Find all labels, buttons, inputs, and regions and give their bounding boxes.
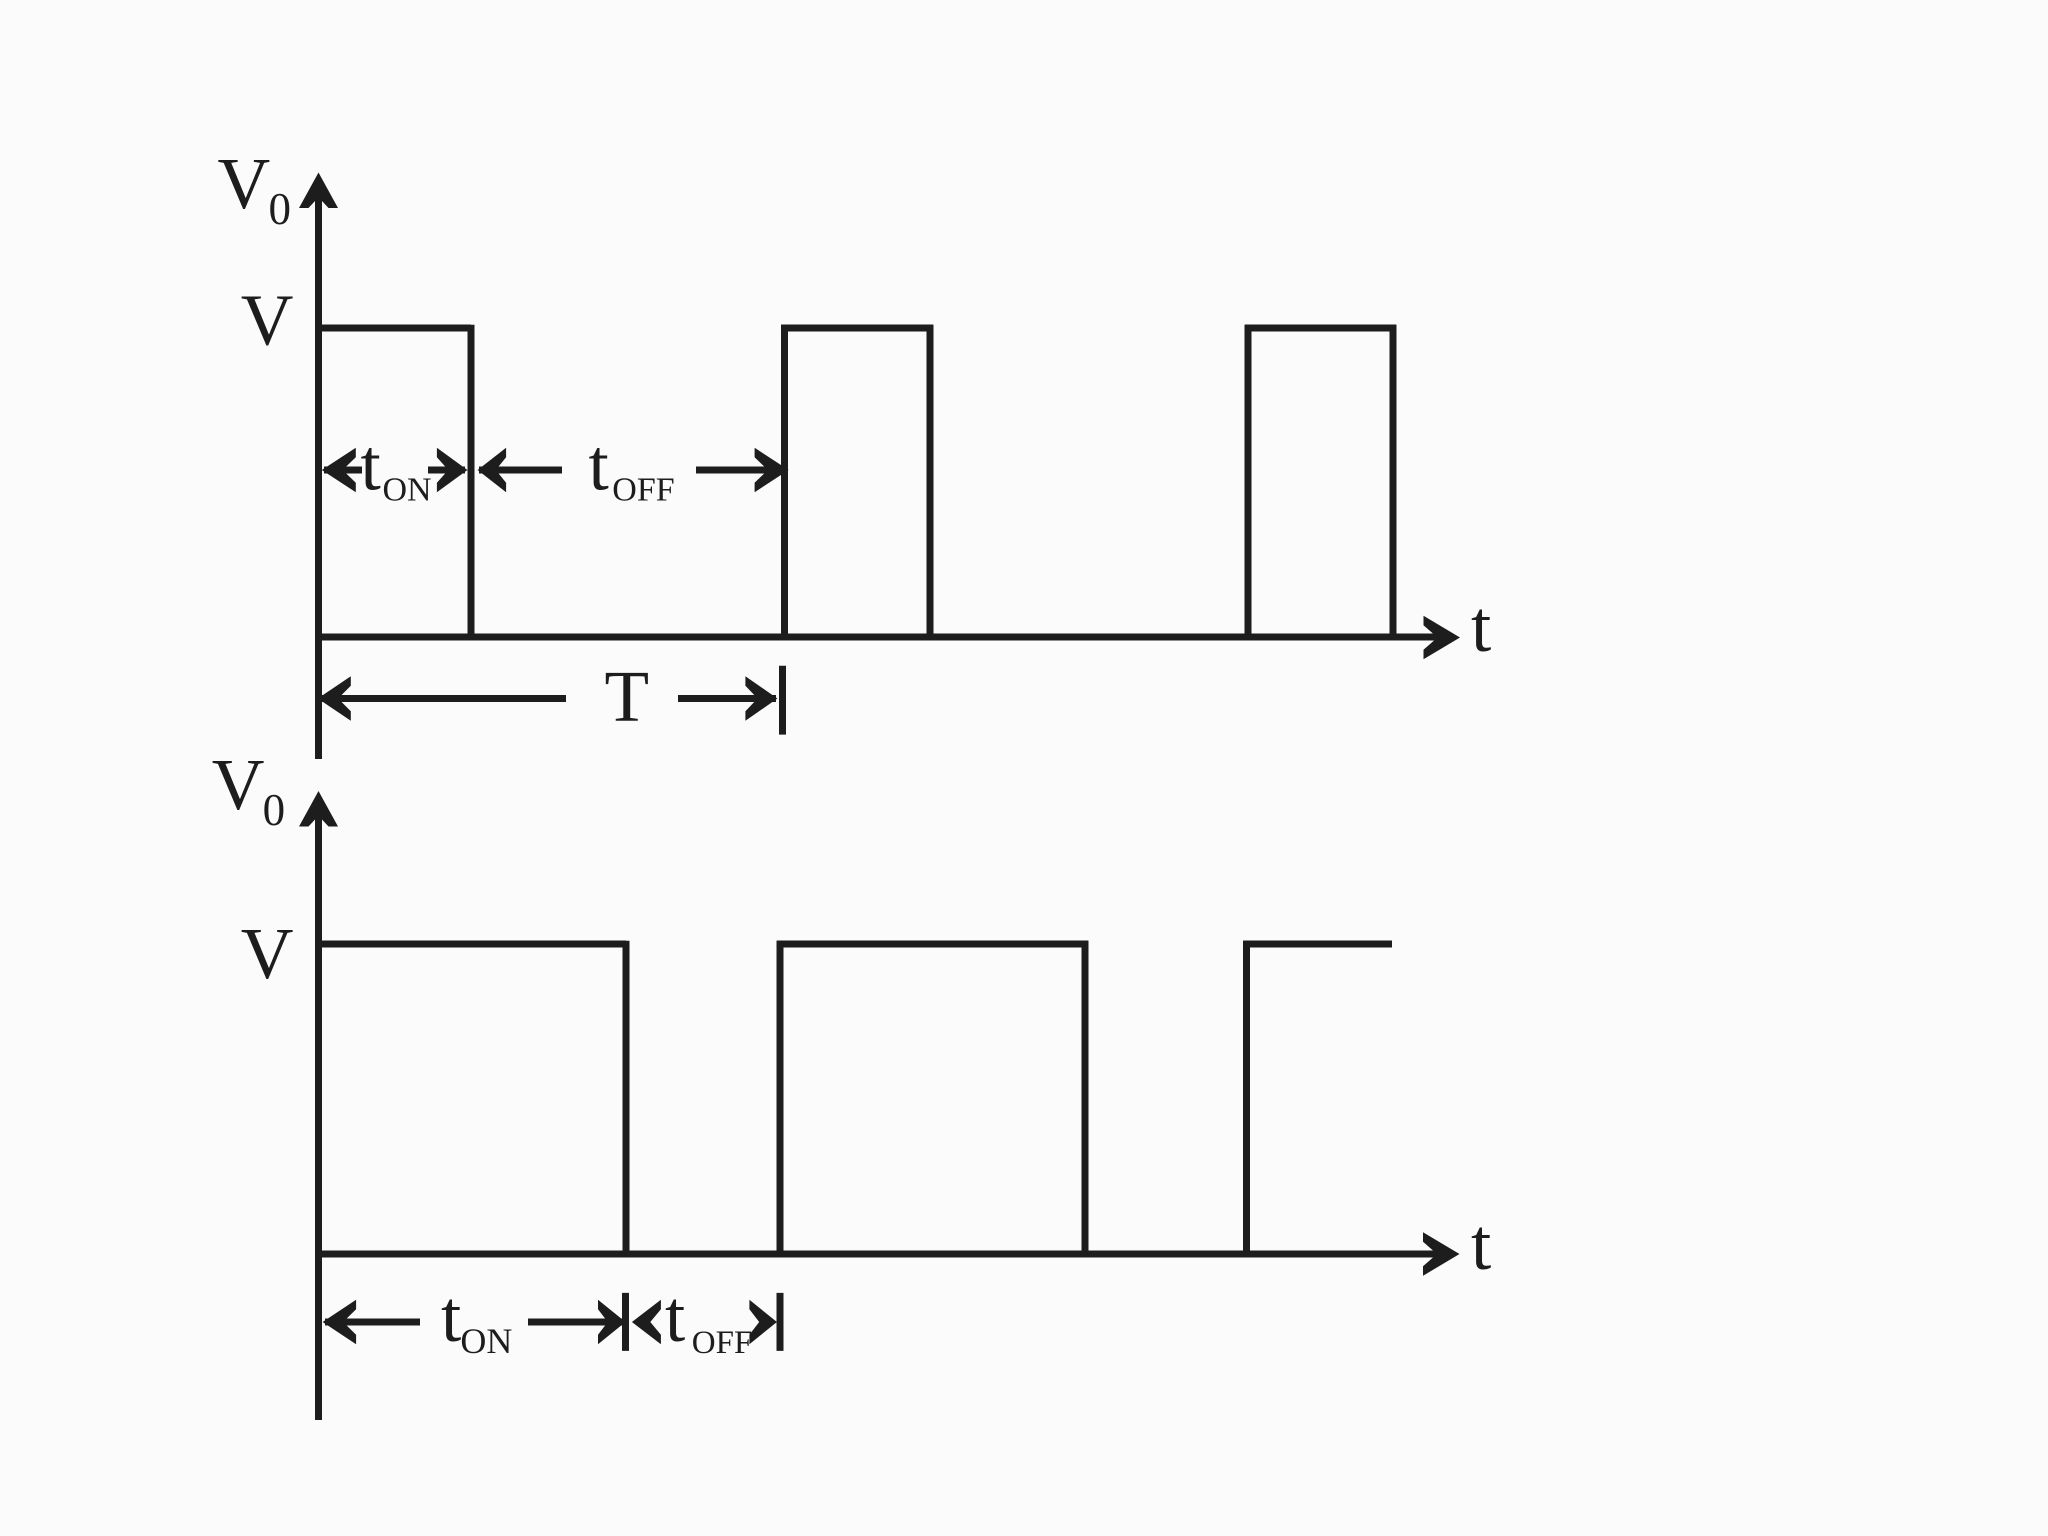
wire: top pulse 3 falling edge: [1390, 325, 1397, 637]
svg-text:t: t: [589, 425, 609, 506]
wire: top pulse 3 top: [1245, 325, 1396, 332]
wire: top tOFF dimension tail right: [696, 467, 787, 474]
arrowhead: top y-axis up arrow: [299, 173, 338, 209]
wire: bottom graph x-axis baseline: [315, 1251, 1443, 1258]
arrowhead: bottom tOFF right arrow: [749, 1300, 777, 1344]
svg-text:t: t: [361, 425, 381, 506]
wire: top pulse 1 falling edge: [468, 325, 475, 637]
svg-text:V: V: [212, 744, 265, 825]
svg-text:t: t: [1471, 586, 1491, 667]
node: bottom tOFF end tick: [777, 1293, 784, 1351]
wire: bottom pulse 3 rising edge: [1243, 941, 1250, 1254]
svg-text:V: V: [241, 279, 294, 360]
svg-text:0: 0: [269, 184, 292, 234]
wire: top tOFF dimension tail left: [479, 467, 562, 474]
node: bottom tON/tOFF shared tick: [622, 1293, 629, 1351]
svg-text:ON: ON: [460, 1321, 512, 1361]
svg-text:ON: ON: [383, 471, 432, 508]
arrowhead: bottom x-axis right arrow: [1423, 1232, 1460, 1276]
svg-text:V: V: [218, 143, 271, 224]
svg-text:t: t: [441, 1276, 461, 1357]
wire: top pulse 3 rising edge: [1245, 325, 1252, 637]
arrowhead: top tOFF right arrow: [755, 448, 789, 492]
wire: top tON dimension right stub: [428, 467, 465, 474]
arrowhead: bottom y-axis up arrow: [299, 791, 338, 827]
wire: bottom pulse 1 falling edge: [623, 941, 630, 1254]
wire: bottom pulse 2 top: [777, 941, 1088, 948]
wire: bottom pulse 1 top at V level: [319, 941, 627, 948]
arrowhead: bottom tOFF left arrow: [632, 1300, 661, 1344]
svg-text:0: 0: [263, 785, 286, 835]
svg-text:t: t: [665, 1276, 685, 1357]
arrowhead: top tON right arrow: [437, 448, 468, 492]
svg-text:OFF: OFF: [612, 471, 674, 508]
wire: top pulse 2 rising edge: [781, 325, 788, 637]
arrowhead: bottom tON right arrow: [598, 1300, 626, 1344]
wire: top pulse 1 top at V level: [319, 325, 472, 332]
node: top T dimension end tick: [779, 666, 786, 735]
wire: bottom graph y-axis shaft: [315, 799, 322, 1420]
wire: top pulse 2 top: [781, 325, 933, 332]
arrowhead: top x-axis right arrow: [1424, 616, 1461, 659]
wire: bottom pulse 2 rising edge: [777, 941, 784, 1254]
svg-text:OFF: OFF: [692, 1325, 753, 1361]
arrowhead: top tOFF left arrow: [478, 448, 507, 492]
arrowhead: top tON left arrow: [322, 448, 356, 492]
wire: top graph y-axis shaft: [315, 180, 322, 759]
svg-text:V: V: [241, 913, 294, 994]
wire: bottom tON dimension tail right: [528, 1319, 623, 1326]
svg-text:t: t: [1471, 1204, 1491, 1285]
wire: top T dimension tail right: [678, 695, 776, 702]
arrowhead: top T left arrow: [318, 676, 351, 721]
wire: top pulse 2 falling edge: [927, 325, 934, 637]
arrowhead: bottom tON left arrow: [323, 1300, 357, 1344]
arrowhead: top T right arrow: [745, 676, 777, 721]
wire: bottom pulse 2 falling edge: [1082, 941, 1089, 1254]
svg-text:T: T: [605, 656, 650, 737]
wire: bottom pulse 3 top (runs off): [1243, 941, 1392, 948]
wire: bottom tON dimension tail left: [325, 1319, 420, 1326]
wire: top T dimension tail left: [320, 695, 566, 702]
wire: top tON dimension left stub: [324, 467, 362, 474]
wire: top graph x-axis baseline: [315, 634, 1444, 641]
